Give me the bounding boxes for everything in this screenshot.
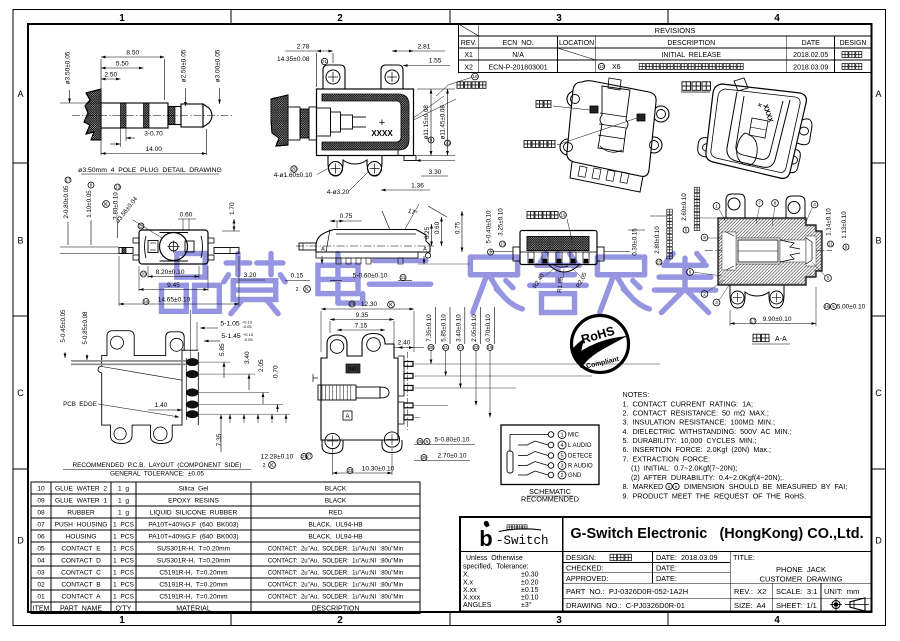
- svg-text:1: 1: [715, 204, 718, 209]
- svg-text:DRAWING NO.: C-PJ0326D0R-01: DRAWING NO.: C-PJ0326D0R-01: [566, 601, 685, 610]
- svg-text:ANGLES: ANGLES: [463, 602, 492, 609]
- svg-text:2: 2: [263, 463, 266, 469]
- svg-text:08: 08: [37, 510, 45, 517]
- svg-text:2: 2: [337, 13, 343, 24]
- svg-text:0.70: 0.70: [273, 365, 280, 378]
- svg-text:CONTACT: 2u"Au, SOLDER: 1u": CONTACT: 2u"Au, SOLDER: 1u"Au;NI :80u"Mi…: [268, 547, 403, 553]
- svg-text:5-1.45: 5-1.45: [221, 333, 240, 340]
- svg-text:ø11.45±0.08: ø11.45±0.08: [440, 105, 447, 140]
- svg-text:GLUE WATER 2: GLUE WATER 2: [55, 486, 107, 493]
- svg-text:7. EXTRACTION FORCE:: 7. EXTRACTION FORCE:: [623, 455, 710, 464]
- svg-text:6: 6: [689, 270, 692, 275]
- svg-text:X.: X.: [463, 572, 470, 579]
- svg-text:2.60±0.10: 2.60±0.10: [681, 193, 688, 221]
- svg-text:13: 13: [500, 242, 505, 247]
- svg-text:RUBBER: RUBBER: [67, 510, 95, 517]
- svg-text:PHONE JACK: PHONE JACK: [776, 565, 826, 574]
- svg-text:2.40: 2.40: [398, 340, 411, 347]
- svg-text:0.25: 0.25: [424, 226, 431, 239]
- svg-text:16: 16: [825, 304, 830, 309]
- svg-text:ITEM: ITEM: [33, 606, 50, 613]
- svg-text:2.70±0.10: 2.70±0.10: [438, 453, 467, 460]
- svg-text:14.00: 14.00: [146, 146, 163, 153]
- svg-text:A: A: [17, 89, 23, 99]
- svg-text:X.xxx: X.xxx: [463, 595, 481, 602]
- svg-text:HOUSING: HOUSING: [66, 534, 97, 541]
- svg-text:TITLE:: TITLE:: [733, 553, 755, 562]
- svg-text:4: 4: [774, 13, 780, 24]
- svg-text:5.85: 5.85: [219, 343, 226, 356]
- svg-text:ECN NO.: ECN NO.: [503, 40, 534, 47]
- svg-text:±0.10: ±0.10: [521, 595, 539, 602]
- svg-text:SHEET: 1/1: SHEET: 1/1: [776, 601, 817, 610]
- svg-text:PART NO.: PJ-0326D0R-052-1A2: PART NO.: PJ-0326D0R-052-1A2H: [566, 587, 688, 596]
- svg-text:07: 07: [37, 522, 45, 529]
- svg-text:X.x: X.x: [463, 580, 474, 587]
- svg-text:ø3.50±0.05: ø3.50±0.05: [65, 51, 72, 84]
- svg-text:2. CONTACT RESISTANCE: 50: 2. CONTACT RESISTANCE: 50 mΩ MAX.;: [623, 409, 769, 418]
- svg-text:REVISIONS: REVISIONS: [655, 26, 696, 35]
- svg-text:1: 1: [560, 432, 563, 438]
- svg-text:28: 28: [429, 345, 434, 350]
- svg-text:04: 04: [37, 558, 45, 565]
- svg-text:CUSTOMER DRAWING: CUSTOMER DRAWING: [760, 575, 843, 584]
- svg-text:CONTACT C: CONTACT C: [61, 570, 101, 577]
- svg-text:1.13±0.10: 1.13±0.10: [841, 211, 848, 239]
- svg-text:3.80±0.10: 3.80±0.10: [113, 192, 120, 220]
- svg-text:DIMENSION SHOULD BE MEASURE: DIMENSION SHOULD BE MEASURED BY FAI;: [684, 482, 847, 491]
- svg-text:B: B: [875, 236, 881, 246]
- svg-text:A: A: [345, 414, 349, 420]
- svg-text:20: 20: [141, 272, 146, 277]
- svg-text:GND: GND: [568, 473, 582, 479]
- svg-text:(1) INITIAL: 0.7~2.0Kgf(7~20: (1) INITIAL: 0.7~2.0Kgf(7~20N);: [631, 464, 737, 473]
- svg-text:2: 2: [560, 473, 563, 479]
- svg-text:3.25±0.10: 3.25±0.10: [498, 208, 505, 236]
- svg-text:PART NAME: PART NAME: [60, 606, 102, 613]
- svg-text:15: 15: [657, 260, 662, 265]
- svg-text:9: 9: [703, 235, 706, 240]
- svg-text:Unless Otherwise: Unless Otherwise: [466, 555, 523, 562]
- svg-text:±0.20: ±0.20: [521, 580, 539, 587]
- svg-text:RECOMMENDED: RECOMMENDED: [521, 495, 579, 504]
- svg-text:1.70: 1.70: [229, 202, 236, 215]
- svg-text:1 PCS: 1 PCS: [113, 558, 134, 565]
- svg-text:RED: RED: [329, 510, 343, 517]
- svg-text:BLACK: BLACK: [325, 486, 347, 493]
- svg-text:5.85±0.10: 5.85±0.10: [441, 314, 448, 342]
- svg-text:DESCRIPTION: DESCRIPTION: [312, 606, 360, 613]
- svg-text:1 PCS: 1 PCS: [113, 594, 134, 601]
- svg-text:0.60: 0.60: [180, 212, 193, 219]
- svg-text:4-ø3.20: 4-ø3.20: [327, 189, 350, 196]
- svg-text:PCB EDGE: PCB EDGE: [63, 401, 97, 408]
- svg-text:4: 4: [813, 202, 816, 207]
- svg-text:4: 4: [774, 615, 780, 626]
- svg-text:C5191R-H, T=0.20mm: C5191R-H, T=0.20mm: [159, 570, 228, 577]
- svg-text:UNIT: mm: UNIT: mm: [824, 587, 859, 596]
- svg-text:DESIGN: DESIGN: [840, 40, 867, 47]
- svg-text:9. PRODUCT MEET THE REQUES: 9. PRODUCT MEET THE REQUEST OF THE RoHS.: [623, 492, 806, 501]
- svg-text:MATERIAL: MATERIAL: [176, 606, 211, 613]
- svg-text:7: 7: [758, 201, 761, 206]
- svg-text:LOCATION: LOCATION: [559, 40, 594, 47]
- svg-text:-0.05: -0.05: [242, 324, 252, 329]
- svg-text:LIQUID SILICONE RUBBER: LIQUID SILICONE RUBBER: [150, 510, 238, 517]
- svg-text:GENERAL TOLERANCE: ±0.05: GENERAL TOLERANCE: ±0.05: [110, 471, 204, 478]
- svg-text:BLACK, UL94-HB: BLACK, UL94-HB: [308, 522, 363, 529]
- svg-text:5-0.40±0.10: 5-0.40±0.10: [486, 210, 493, 244]
- svg-text:1.40: 1.40: [155, 402, 168, 409]
- svg-text:17: 17: [66, 178, 71, 183]
- svg-text:L AUDIO: L AUDIO: [568, 443, 592, 449]
- svg-text:2.50: 2.50: [104, 72, 117, 79]
- svg-text:ø3.50mm 4 POLE PLUG DETAIL: ø3.50mm 4 POLE PLUG DETAIL DRAWING: [78, 167, 222, 174]
- svg-text:PUSH HOUSING: PUSH HOUSING: [55, 522, 108, 529]
- svg-text:N/A: N/A: [512, 52, 524, 59]
- svg-text:Silica Gel: Silica Gel: [179, 486, 209, 493]
- svg-text:1: 1: [119, 615, 125, 626]
- svg-text:CONTACT: 2u"Au, SOLDER: 1u": CONTACT: 2u"Au, SOLDER: 1u"Au;NI :80u"Mi…: [268, 595, 403, 601]
- svg-text:C5191R-H, T=0.20mm: C5191R-H, T=0.20mm: [159, 582, 228, 589]
- svg-text:8.50: 8.50: [126, 50, 139, 57]
- svg-text:SIZE: A4: SIZE: A4: [734, 601, 766, 610]
- svg-text:19: 19: [488, 345, 493, 350]
- svg-text:BLACK: BLACK: [325, 498, 347, 505]
- svg-text:0.30±0.15: 0.30±0.15: [632, 228, 639, 256]
- svg-text:3: 3: [556, 13, 562, 24]
- svg-text:10: 10: [445, 141, 451, 146]
- svg-text:1 PCS: 1 PCS: [113, 522, 134, 529]
- svg-text:0.75: 0.75: [455, 221, 462, 234]
- svg-text:DESIGN:: DESIGN:: [566, 553, 596, 562]
- svg-text:X1: X1: [464, 52, 473, 59]
- svg-text:A: A: [321, 247, 325, 253]
- svg-text:4: 4: [560, 443, 563, 449]
- svg-text:ø3.00±0.05: ø3.00±0.05: [215, 49, 222, 82]
- svg-text:2.05±0.10: 2.05±0.10: [471, 314, 478, 342]
- svg-text:10.30±0.10: 10.30±0.10: [362, 466, 395, 473]
- svg-text:0.15: 0.15: [291, 273, 304, 280]
- svg-text:23: 23: [348, 468, 353, 473]
- svg-text:SCALE: 3:1: SCALE: 3:1: [776, 587, 817, 596]
- svg-text:5.50: 5.50: [116, 61, 129, 68]
- svg-text:03: 03: [37, 570, 45, 577]
- svg-text:3: 3: [560, 463, 563, 469]
- svg-text:7.15: 7.15: [355, 323, 368, 330]
- svg-text:SUS301R-H, T=0.20mm: SUS301R-H, T=0.20mm: [157, 546, 231, 553]
- svg-text:XXXX: XXXX: [371, 129, 393, 138]
- svg-text:1 PCS: 1 PCS: [113, 546, 134, 553]
- svg-text:B: B: [17, 236, 23, 246]
- svg-text:0.60: 0.60: [434, 221, 441, 234]
- svg-text:CONTACT D: CONTACT D: [61, 558, 101, 565]
- svg-text:NOTES:: NOTES:: [623, 390, 650, 399]
- svg-text:specified, Tolerance:: specified, Tolerance:: [463, 564, 529, 571]
- svg-text:1.10±0.05: 1.10±0.05: [86, 190, 93, 218]
- svg-text:DATE:: DATE:: [656, 574, 677, 583]
- svg-text:19: 19: [560, 213, 566, 218]
- svg-text:D: D: [875, 536, 882, 546]
- svg-text:DATE: 2018.03.09: DATE: 2018.03.09: [656, 553, 718, 562]
- svg-text:-Switch: -Switch: [496, 534, 549, 548]
- svg-text:27: 27: [307, 454, 312, 459]
- svg-text:D: D: [17, 536, 24, 546]
- svg-text:09: 09: [37, 498, 45, 505]
- svg-text:R AUDIO: R AUDIO: [568, 464, 593, 470]
- svg-text:A: A: [423, 247, 427, 253]
- svg-text:24: 24: [458, 345, 463, 350]
- svg-text:CONTACT: 2u"Au, SOLDER: 1u": CONTACT: 2u"Au, SOLDER: 1u"Au;NI :80u"Mi…: [268, 571, 403, 577]
- svg-text:2: 2: [337, 615, 343, 626]
- svg-text:±0.30: ±0.30: [521, 572, 539, 579]
- svg-text:2.80±0.10: 2.80±0.10: [654, 226, 661, 254]
- svg-text:X2: X2: [464, 65, 473, 72]
- svg-text:CONTACT: 2u"Au, SOLDER: 1u": CONTACT: 2u"Au, SOLDER: 1u"Au;NI :80u"Mi…: [268, 559, 403, 565]
- svg-text:DATE:: DATE:: [656, 564, 677, 573]
- svg-text:11: 11: [828, 242, 833, 247]
- svg-text:C5191R-H, T=0.20mm: C5191R-H, T=0.20mm: [159, 594, 228, 601]
- svg-text:5-0.80±0.10: 5-0.80±0.10: [435, 437, 470, 444]
- svg-text:16: 16: [472, 74, 478, 79]
- svg-text:2-0.80±0.05: 2-0.80±0.05: [63, 185, 70, 219]
- svg-text:21: 21: [443, 345, 448, 350]
- svg-text:3: 3: [556, 615, 562, 626]
- svg-text:CONTACT E: CONTACT E: [61, 546, 101, 553]
- svg-text:3.40±0.10: 3.40±0.10: [456, 314, 463, 342]
- svg-text:G-Switch Electronic (HongKon: G-Switch Electronic (HongKong) CO.,Ltd.: [570, 526, 863, 542]
- svg-text:5.00±0.10: 5.00±0.10: [837, 304, 866, 311]
- svg-text:RECOMMENDED P.C.B. LAYOUT (: RECOMMENDED P.C.B. LAYOUT (COMPONENT SID…: [73, 462, 242, 469]
- svg-text:5-1.05: 5-1.05: [220, 321, 239, 328]
- svg-text:12.28±0.10: 12.28±0.10: [261, 454, 294, 461]
- svg-text:3. INSULATION RESISTANCE: 1: 3. INSULATION RESISTANCE: 100MΩ MIN.;: [623, 418, 775, 427]
- svg-text:20: 20: [291, 167, 297, 172]
- svg-text:DATE: DATE: [802, 40, 820, 47]
- svg-text:3-0.70: 3-0.70: [144, 131, 163, 138]
- svg-text:10: 10: [37, 486, 45, 493]
- svg-text:8. MARKED: 8. MARKED: [623, 482, 664, 491]
- svg-text:1: 1: [119, 13, 125, 24]
- svg-text:-0.05: -0.05: [243, 337, 253, 342]
- svg-text:14.35±0.08: 14.35±0.08: [277, 56, 310, 63]
- svg-text:4-ø1.60±0.10: 4-ø1.60±0.10: [274, 172, 313, 179]
- svg-text:INITIAL RELEASE: INITIAL RELEASE: [661, 52, 721, 59]
- svg-text:1 g: 1 g: [118, 510, 129, 517]
- svg-text:16: 16: [144, 299, 149, 304]
- svg-text:5-0.45±0.05: 5-0.45±0.05: [60, 309, 67, 343]
- svg-text:13: 13: [115, 185, 120, 190]
- svg-text:5: 5: [560, 453, 563, 459]
- svg-text:±3°: ±3°: [521, 601, 532, 609]
- svg-text:4. DIELECTRIC WITHSTANDING:: 4. DIELECTRIC WITHSTANDING: 500V AC MIN.…: [623, 427, 792, 436]
- svg-text:+: +: [379, 117, 385, 129]
- svg-text:7.35: 7.35: [216, 433, 223, 446]
- svg-text:DETECE: DETECE: [568, 454, 592, 460]
- svg-text:2.78: 2.78: [297, 44, 310, 51]
- svg-text:BLACK, UL94-HB: BLACK, UL94-HB: [308, 534, 363, 541]
- svg-text:X: X: [667, 485, 670, 490]
- svg-text:A: A: [875, 89, 881, 99]
- svg-text:3: 3: [715, 300, 718, 305]
- svg-text:3.40: 3.40: [244, 351, 251, 364]
- svg-text:02: 02: [37, 582, 45, 589]
- svg-text:2.05: 2.05: [258, 359, 265, 372]
- svg-text:SUS301R-H, T=0.20mm: SUS301R-H, T=0.20mm: [157, 558, 231, 565]
- svg-text:5-0.85±0.08: 5-0.85±0.08: [82, 311, 89, 345]
- svg-text:06: 06: [37, 534, 45, 541]
- svg-text:ø2.50±0.05: ø2.50±0.05: [181, 49, 188, 82]
- svg-text:X6: X6: [612, 64, 621, 71]
- svg-text:EPOXY RESINS: EPOXY RESINS: [168, 498, 219, 505]
- svg-text:8: 8: [774, 201, 777, 206]
- svg-text:C: C: [875, 388, 882, 398]
- svg-text:0.70±0.10: 0.70±0.10: [485, 314, 492, 342]
- svg-text:17: 17: [751, 319, 756, 324]
- svg-text:1 g: 1 g: [118, 498, 129, 505]
- svg-text:REV.: X2: REV.: X2: [734, 587, 766, 596]
- svg-text:DESCRIPTION: DESCRIPTION: [667, 40, 715, 47]
- svg-text:Q’TY: Q’TY: [116, 606, 132, 613]
- svg-text:(2) AFTER DURABILITY: 0.4~2: (2) AFTER DURABILITY: 0.4~2.0Kgf(4~20N);…: [631, 473, 784, 482]
- svg-text:01: 01: [37, 594, 45, 601]
- svg-text:30: 30: [422, 455, 427, 460]
- svg-text:5. DURABILITY: 10,000 CYCLE: 5. DURABILITY: 10,000 CYCLES MIN.;: [623, 436, 757, 445]
- svg-text:A-A: A-A: [775, 336, 787, 343]
- svg-text:22: 22: [474, 345, 479, 350]
- svg-text:25: 25: [418, 439, 423, 444]
- svg-text:1 PCS: 1 PCS: [113, 534, 134, 541]
- svg-text:9.35: 9.35: [356, 312, 369, 319]
- svg-text:CONTACT A: CONTACT A: [62, 594, 102, 601]
- svg-text:CONTACT B: CONTACT B: [61, 582, 101, 589]
- svg-text:PA10T+40%G.F (640 BK003): PA10T+40%G.F (640 BK003): [148, 522, 238, 529]
- svg-text:X.xx: X.xx: [463, 587, 477, 594]
- svg-text:340: 340: [348, 367, 359, 373]
- svg-text:ø11.15±0.08: ø11.15±0.08: [423, 105, 430, 140]
- svg-text:1.36: 1.36: [411, 183, 424, 190]
- svg-text:MIC: MIC: [568, 433, 580, 439]
- svg-text:0.75: 0.75: [340, 213, 353, 220]
- svg-text:9.90±0.10: 9.90±0.10: [763, 316, 792, 323]
- svg-text:CONTACT: 2u"Au, SOLDER: 1u": CONTACT: 2u"Au, SOLDER: 1u"Au;NI :80u"Mi…: [268, 583, 403, 589]
- svg-text:6. INSERTION FORCE: 2.0Kgf: 6. INSERTION FORCE: 2.0Kgf (20N) Max.;: [623, 445, 771, 454]
- svg-text:1 PCS: 1 PCS: [113, 582, 134, 589]
- svg-text:2018.03.09: 2018.03.09: [793, 65, 828, 72]
- svg-text:X: X: [674, 485, 677, 490]
- svg-text:2: 2: [296, 287, 299, 293]
- svg-text:3.30: 3.30: [429, 169, 442, 176]
- svg-text:2018.02.05: 2018.02.05: [793, 52, 828, 59]
- svg-text:REV.: REV.: [461, 40, 477, 47]
- svg-text:1. CONTACT CURRENT RATING:: 1. CONTACT CURRENT RATING: 1A;: [623, 400, 753, 409]
- svg-text:2.81: 2.81: [418, 44, 431, 51]
- svg-text:21: 21: [322, 59, 328, 64]
- svg-text:5: 5: [827, 276, 830, 281]
- svg-text:1.14±0.10: 1.14±0.10: [826, 208, 833, 236]
- svg-text:1 PCS: 1 PCS: [113, 570, 134, 577]
- svg-text:GLUE WATER 1: GLUE WATER 1: [55, 498, 107, 505]
- svg-text:b: b: [479, 526, 492, 551]
- svg-text:±0.15: ±0.15: [521, 587, 539, 594]
- svg-text:05: 05: [37, 546, 45, 553]
- svg-text:ECN-P-201803001: ECN-P-201803001: [489, 65, 548, 72]
- svg-text:7.35±0.10: 7.35±0.10: [426, 314, 433, 342]
- svg-text:PA10T+40%G.F (640 BK003): PA10T+40%G.F (640 BK003): [148, 534, 238, 541]
- svg-text:1 g: 1 g: [118, 486, 129, 493]
- svg-text:11: 11: [401, 275, 406, 280]
- svg-text:APPROVED:: APPROVED:: [566, 574, 609, 583]
- svg-text:1.55: 1.55: [429, 58, 442, 65]
- svg-text:CHECKED:: CHECKED:: [566, 564, 604, 573]
- svg-text:C: C: [17, 388, 24, 398]
- svg-text:12: 12: [599, 64, 605, 69]
